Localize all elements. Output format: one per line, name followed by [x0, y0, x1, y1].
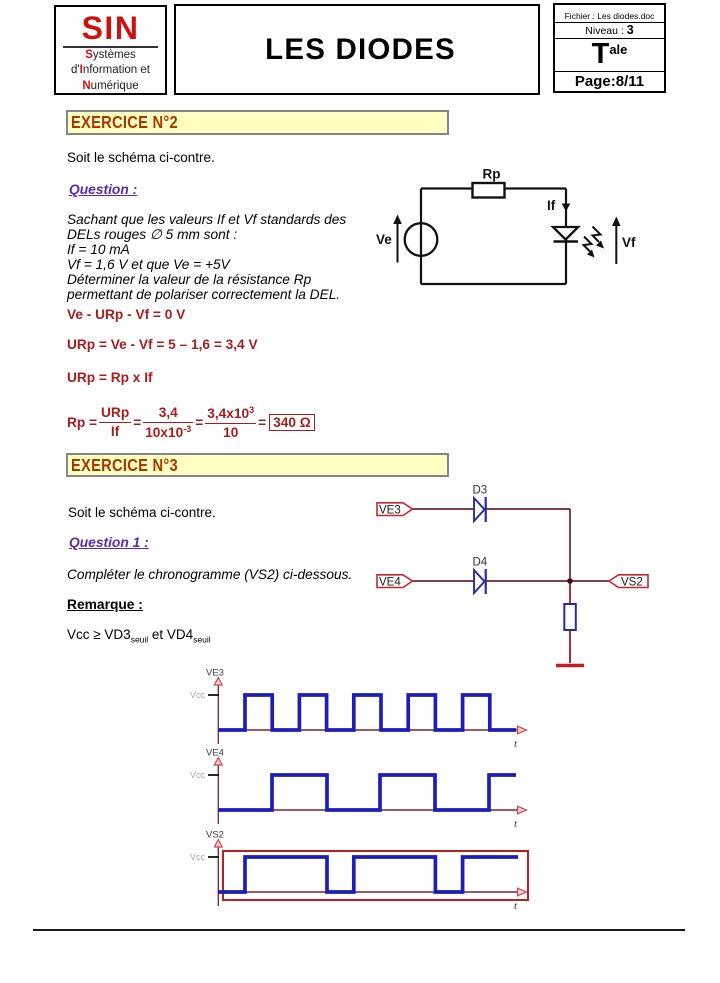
y axis [217, 764, 219, 824]
title box [174, 4, 540, 95]
wire net VE4 (flag to D4 to VS2 flag) [413, 580, 610, 582]
svg-text:VE3: VE3 [379, 505, 401, 517]
banner exercice 3 [66, 453, 449, 477]
waveform VE3 [218, 695, 516, 730]
node flag VE4 [377, 575, 413, 588]
body text exercice 2 [67, 150, 215, 165]
wire vertical D3 cathode down to junction [569, 509, 571, 581]
banner exercice 2 [66, 110, 449, 135]
svg-text:Ve: Ve [376, 232, 392, 247]
Vcc level tick [208, 856, 219, 858]
svg-text:VE4: VE4 [379, 577, 401, 589]
x axis (t) [218, 809, 517, 811]
wire right (LED branch) [565, 189, 567, 285]
schematic 1 : Ve source, Rp, LED circuit [370, 155, 650, 305]
LED D1 (diode triangle + cathode bar) [553, 227, 578, 240]
x axis (t) [218, 891, 517, 893]
resistor Rp [473, 183, 505, 198]
svg-text:D4: D4 [473, 557, 488, 569]
svg-text:Vf: Vf [622, 235, 636, 250]
svg-text:Vcc: Vcc [190, 690, 206, 700]
waveform charts [180, 658, 540, 918]
svg-text:t: t [514, 738, 518, 750]
svg-text:t: t [514, 900, 518, 912]
info box [553, 3, 666, 93]
svg-text:Vcc: Vcc [190, 770, 206, 780]
y axis [217, 684, 219, 744]
svg-text:VS2: VS2 [621, 577, 643, 589]
svg-text:Rp: Rp [483, 167, 501, 182]
svg-text:VE3: VE3 [206, 668, 224, 679]
SIN logo box [54, 5, 167, 95]
arrow Ve [397, 222, 399, 263]
arrow If (current) [562, 204, 571, 212]
red answer rectangle [223, 851, 528, 900]
wire top (source to Rp to LED) [421, 187, 566, 189]
svg-text:VE4: VE4 [206, 748, 224, 759]
LED light emission arrows [584, 227, 605, 258]
Vcc level tick [208, 774, 219, 776]
svg-text:t: t [514, 818, 518, 830]
schematic 2 : diode OR gate with D3, D4 [350, 480, 680, 675]
resistor R1 [564, 604, 576, 630]
waveform VS2 [218, 857, 518, 892]
x axis (t) [218, 729, 517, 731]
wire junction to resistor to ground [569, 581, 571, 663]
junction node [567, 578, 573, 584]
chart VE4 [190, 748, 527, 831]
arrow Vf [615, 224, 617, 264]
footer line [33, 929, 685, 931]
fraction equation row [67, 400, 315, 444]
wire net VE3 (flag to D3 to corner) [413, 508, 571, 510]
y axis [217, 846, 219, 906]
svg-text:VS2: VS2 [206, 830, 224, 841]
svg-text:D3: D3 [473, 485, 488, 497]
chart VS2 [190, 830, 528, 913]
waveform VE4 [218, 775, 516, 810]
Vcc level tick [208, 694, 219, 696]
diode D4 [474, 569, 486, 594]
chart VE3 [190, 668, 527, 751]
wire bottom (return) [421, 283, 566, 285]
voltage source Ve (circle) [405, 223, 438, 256]
wire left (source branch) [420, 189, 422, 285]
svg-text:If: If [547, 198, 556, 213]
svg-text:Vcc: Vcc [190, 852, 206, 862]
diode D3 [474, 497, 486, 522]
node flag VE3 [377, 503, 413, 516]
node flag VS2 [609, 575, 648, 588]
ground [556, 664, 584, 668]
body text exercice 3 [68, 505, 216, 520]
